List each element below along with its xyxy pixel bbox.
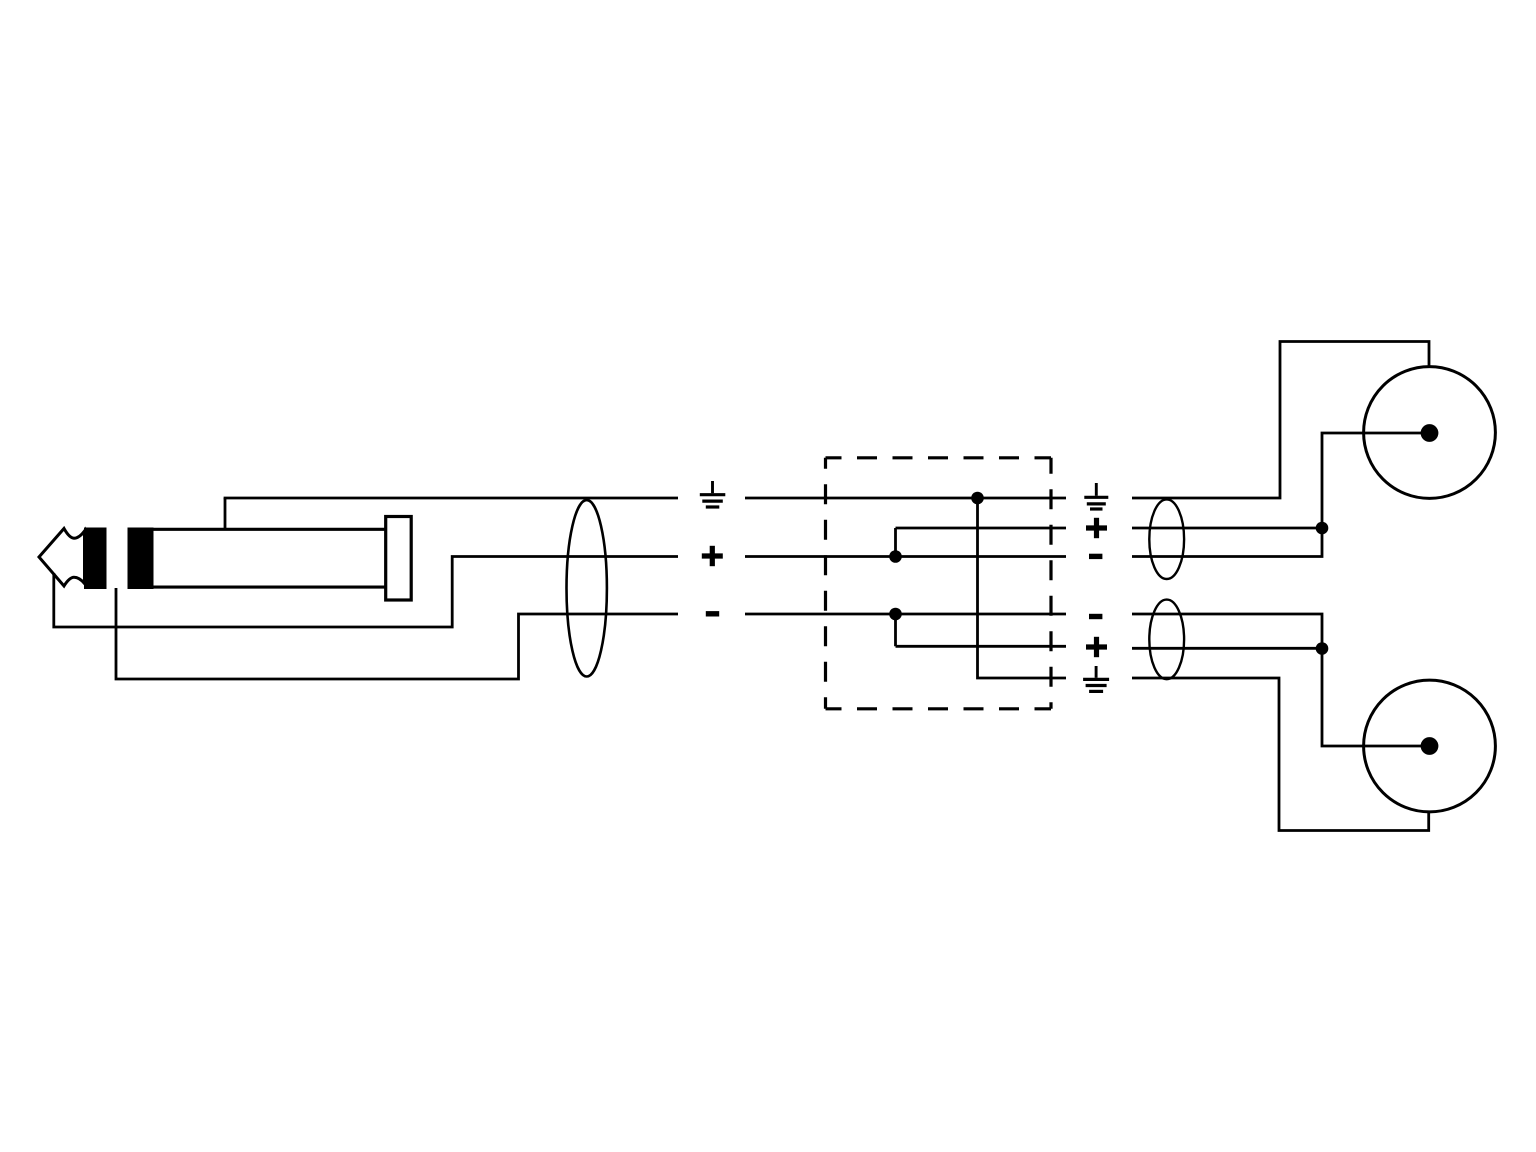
minus label (left group) [706, 611, 719, 616]
wire: ring to minus line [116, 588, 678, 679]
wire: ground line from jack to cable ellipse [224, 497, 678, 500]
jack plug J1 tip insulator band [84, 528, 107, 590]
RCA plug P1 center pin [1421, 424, 1439, 442]
jack plug J1 tip (arrow) [39, 529, 85, 587]
wire: plus branch up to upper plus out [896, 528, 1067, 557]
ground symbol (right lower) [1083, 666, 1109, 691]
junction dot: plus branch [889, 550, 902, 563]
plus label (right lower) [1086, 637, 1107, 657]
junction dot: RCA1 pin [1316, 522, 1329, 535]
RCA plug P2 shell [1364, 680, 1496, 812]
junction dot: ground branch [971, 492, 984, 505]
wire: upper ground to RCA1 shell bracket [1132, 342, 1429, 499]
wire: lower minus down to RCA2 pin junction [1132, 614, 1322, 649]
cable shield ellipse (right lower) [1149, 600, 1184, 680]
jack plug J1 sleeve body bottom edge [152, 586, 387, 589]
jack plug J1 ring insulator band [128, 528, 154, 590]
wire: RCA2 center pin lead [1322, 649, 1430, 747]
ground symbol (right upper) [1084, 483, 1108, 509]
ground symbol (left group) [700, 481, 726, 507]
wire: minus branch down to lower plus out [896, 614, 1067, 646]
wire: sleeve riser to ground line [224, 498, 227, 529]
wire: ground branch to lower group [978, 498, 1067, 678]
plus label (left group) [702, 546, 723, 566]
wire: lower ground to RCA2 shell bracket [1132, 678, 1429, 831]
RCA plug P2 center pin [1421, 737, 1439, 755]
junction box (dashed) [826, 458, 1052, 709]
wire: upper minus up to RCA1 pin junction [1132, 528, 1322, 557]
wire: minus into junction box [745, 613, 1066, 616]
junction dot: minus branch [889, 608, 902, 621]
wire: lower plus to RCA2 pin junction [1132, 647, 1322, 650]
wire: upper plus to RCA1 pin junction [1132, 527, 1322, 530]
cable shield ellipse (right upper) [1149, 499, 1184, 579]
wire: tip to plus line [54, 557, 678, 628]
wire: ground into junction box [745, 497, 1066, 500]
minus label (right upper) [1089, 554, 1102, 559]
minus label (right lower) [1089, 614, 1102, 619]
RCA plug P1 shell [1364, 367, 1496, 499]
wire: plus into junction box [745, 555, 1066, 558]
plus label (right upper) [1086, 518, 1107, 538]
jack plug J1 sleeve body top edge [152, 528, 387, 531]
wire: RCA1 center pin lead [1322, 433, 1430, 528]
jack plug J1 sleeve end cap [386, 517, 412, 601]
cable shield ellipse (left) [567, 500, 607, 676]
junction dot: RCA2 pin [1316, 642, 1329, 655]
